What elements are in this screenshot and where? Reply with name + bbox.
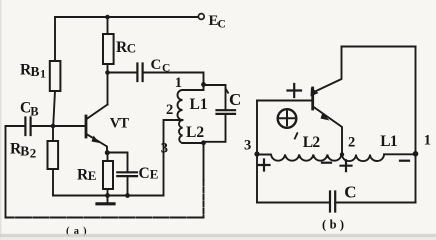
svg-text:L1: L1 [190,96,208,113]
node junction rail/RC [105,15,110,20]
capacitor CB [25,118,30,136]
svg-text:C: C [127,40,136,55]
polarity plus left end (b) [259,160,270,171]
svg-text:C: C [139,165,150,182]
svg-text:C: C [218,19,226,31]
wire tank top to coil [183,85,204,90]
node RE/rail [105,193,110,198]
wire outer bottom [6,217,204,219]
svg-text:E: E [88,168,97,183]
node tank bottom [201,140,206,145]
resistor RB2 [48,141,59,169]
capacitor CE [117,172,137,176]
svg-text:B: B [20,144,29,159]
wire left branch (b) [256,101,258,203]
svg-text:C: C [151,57,162,73]
wire right branch (b) [415,47,417,203]
wire outer left [5,126,7,218]
inductor L1 L2 coil [178,90,183,143]
svg-text:C: C [229,90,241,109]
wire bottom rail (b) right [335,202,415,204]
svg-text:(b): (b) [322,218,347,232]
svg-text:1: 1 [424,133,431,149]
ground rail (a) [53,195,164,197]
transistor Q (b) [311,88,314,109]
wire CC to tank [143,73,204,86]
wire emitter to RE [107,153,109,162]
svg-text:L1: L1 [380,133,397,150]
terminal EC [198,14,204,20]
capacitor C tank branch [204,85,226,110]
svg-text:L2: L2 [303,134,321,151]
svg-text:3: 3 [244,138,251,154]
wire node3 vertical [203,143,205,180]
capacitor CC [137,64,142,82]
wire coil bottom [183,142,204,144]
source circle plus (b) [278,109,297,128]
node tank top [201,82,206,87]
wire RB2 to ground rail [52,169,54,196]
node CE/rail [125,193,130,198]
ground [107,196,109,204]
wire top rail (b) [342,46,416,48]
node 1 (b) [413,151,419,157]
svg-text:3: 3 [161,141,168,157]
svg-text:2: 2 [166,102,173,118]
polarity minus under L2 (b) [322,162,331,164]
transistor VT [85,116,88,137]
wire base (b) [257,100,312,102]
polarity plus under node2 (b) [341,160,352,171]
wire top supply rail (a) [55,16,198,18]
svg-text:L2: L2 [186,124,204,141]
resistor RB1 [50,61,61,91]
svg-text:B: B [30,105,38,119]
node base junction [51,124,56,129]
svg-text:E: E [150,167,159,182]
svg-text:1: 1 [40,67,46,81]
node collector [105,70,110,75]
polarity plus above base (b) [288,84,302,97]
wire collector to CC [108,72,138,74]
svg-text:2: 2 [30,146,37,161]
scan artifact bottom band [0,234,436,237]
node 2 (b) [340,152,344,156]
wire bottom rail (b) left [257,202,330,204]
wire CB left lead [6,125,26,127]
wire tap 2 [164,120,183,196]
polarity minus under L1 (b) [400,160,409,162]
wire base node to RB2 [52,126,54,141]
wire base [31,125,85,127]
capacitor C (b) [330,192,335,212]
inductor L2 (b) [257,155,342,161]
node 3 (b) [254,151,259,156]
inductor L1 (b) [342,154,416,161]
tick mark (b) [295,133,298,138]
resistor RC [107,17,109,34]
svg-text:C: C [162,63,170,75]
scan artifact left edge [0,0,1,240]
svg-text:VT: VT [110,116,130,132]
wire collector drop (b) [314,47,342,93]
node emitter [105,150,110,155]
svg-text:C: C [344,183,356,202]
wire emitter to CE [107,153,128,173]
wire left branch upper [54,17,56,61]
svg-text:2: 2 [348,135,355,151]
wire RB1 to base node [53,91,55,126]
resistor RE [103,161,113,189]
svg-text:1: 1 [175,75,182,91]
svg-text:B: B [31,64,40,79]
